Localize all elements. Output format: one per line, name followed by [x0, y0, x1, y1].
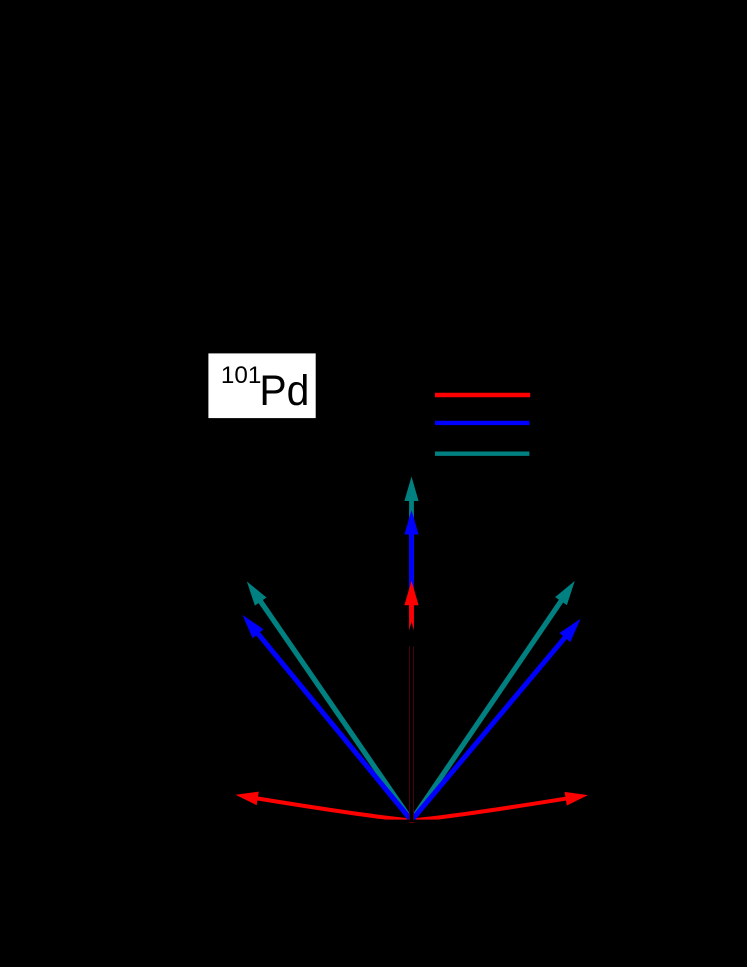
- red vertical arrow: [404, 581, 418, 821]
- black x-axis overlay line: [230, 820, 592, 822]
- blue vertical arrow: [404, 510, 418, 821]
- nuclide label box 101Pd: [208, 353, 315, 418]
- red curved arrow R left: [236, 792, 412, 821]
- red curved arrow R right: [412, 792, 588, 821]
- legend line blue: [435, 421, 529, 425]
- blue diagonal arrow right: [412, 619, 581, 821]
- teal vertical arrow: [404, 477, 418, 821]
- legend line teal: [435, 452, 529, 456]
- svg-text:101: 101: [221, 362, 262, 389]
- teal diagonal arrow left: [247, 581, 412, 820]
- black overlay axis arrow: [404, 622, 418, 821]
- blue diagonal arrow left: [243, 615, 412, 821]
- legend line red: [435, 393, 530, 397]
- svg-text:Pd: Pd: [259, 367, 309, 415]
- teal diagonal arrow right: [412, 581, 575, 821]
